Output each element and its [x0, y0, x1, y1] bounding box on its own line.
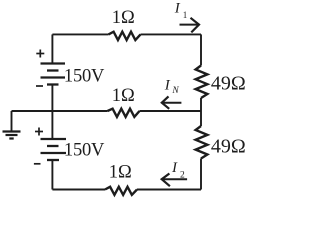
resistor 1ohm (top): [109, 32, 141, 40]
label: + terminal of battery V1: [36, 50, 44, 58]
resistor 1ohm (bottom): [105, 187, 137, 195]
resistor 49ohm (top): [196, 66, 208, 99]
label: - terminal of battery V2: [34, 163, 41, 165]
wire: right rail top segment: [200, 34, 202, 65]
svg-text:I: I: [174, 1, 181, 17]
wire: middle wire right segment: [140, 110, 202, 112]
wire: bottom wire left segment: [52, 189, 105, 191]
wire: right rail middle segment: [200, 98, 202, 126]
svg-text:1: 1: [183, 10, 188, 20]
resistor 49ohm (bottom): [196, 126, 208, 159]
battery V1 150V: [41, 64, 66, 85]
current arrow I1: [180, 24, 198, 26]
ground: [3, 111, 21, 139]
battery V2 150V: [41, 139, 67, 160]
wire: middle wire left segment: [12, 110, 108, 112]
wire: right rail bottom segment: [200, 159, 202, 190]
wire: left rail top segment: [51, 34, 53, 63]
svg-text:N: N: [171, 86, 179, 96]
wire: top wire left segment: [52, 33, 108, 35]
svg-text:150V: 150V: [64, 141, 105, 161]
svg-text:1Ω: 1Ω: [112, 8, 135, 28]
wire: left rail bottom segment: [51, 160, 53, 190]
current arrow I2: [163, 178, 188, 180]
wire: left rail middle segment: [51, 85, 53, 140]
label: - terminal of battery V1: [36, 85, 43, 87]
current arrow IN: [163, 102, 182, 104]
wire: bottom wire right segment: [137, 189, 201, 191]
svg-text:1Ω: 1Ω: [112, 86, 135, 106]
svg-text:49Ω: 49Ω: [211, 72, 246, 94]
svg-text:1Ω: 1Ω: [109, 162, 132, 182]
svg-text:I: I: [164, 78, 171, 94]
resistor 1ohm (middle): [108, 109, 140, 117]
label: + terminal of battery V2: [35, 128, 43, 136]
svg-text:I: I: [171, 160, 178, 176]
svg-text:49Ω: 49Ω: [211, 135, 246, 157]
svg-text:150V: 150V: [64, 67, 105, 87]
wire: top wire right segment: [141, 33, 202, 35]
